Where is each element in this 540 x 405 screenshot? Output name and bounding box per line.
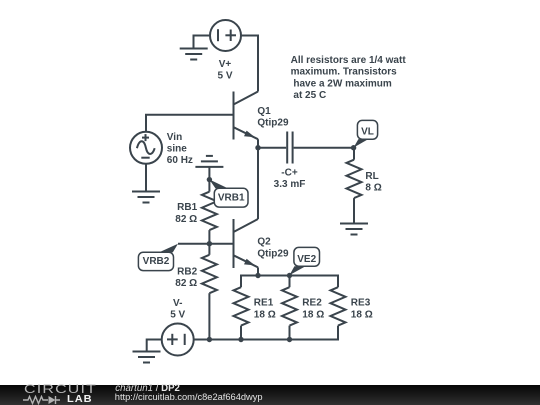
svg-text:RL: RL [365,171,378,182]
svg-text:RB2: RB2 [177,266,197,277]
svg-text:RE1: RE1 [254,298,274,309]
svg-text:18 Ω: 18 Ω [351,309,373,320]
svg-text:60 Hz: 60 Hz [167,155,193,166]
svg-text:Qtip29: Qtip29 [257,118,289,129]
svg-text:Q2: Q2 [257,237,271,248]
svg-text:3.3 mF: 3.3 mF [274,179,306,190]
svg-text:18 Ω: 18 Ω [254,309,276,320]
svg-text:sine: sine [167,144,187,155]
svg-text:5 V: 5 V [170,310,185,321]
svg-text:VRB2: VRB2 [143,256,170,267]
svg-text:8 Ω: 8 Ω [365,183,381,194]
svg-text:Qtip29: Qtip29 [257,248,289,259]
svg-text:RE3: RE3 [351,298,371,309]
svg-text:5 V: 5 V [217,71,232,82]
svg-text:-C+: -C+ [281,167,298,178]
svg-text:Vin: Vin [167,132,182,143]
svg-text:RB1: RB1 [177,202,197,213]
svg-text:VE2: VE2 [297,254,316,265]
svg-text:RE2: RE2 [302,298,322,309]
svg-text:82 Ω: 82 Ω [175,214,197,225]
svg-text:18 Ω: 18 Ω [302,309,324,320]
svg-text:Q1: Q1 [257,106,271,117]
svg-text:have a 2W maximum: have a 2W maximum [293,78,391,89]
svg-text:All resistors are 1/4 watt: All resistors are 1/4 watt [291,55,407,66]
svg-text:VL: VL [361,126,374,137]
svg-text:V+: V+ [219,59,232,70]
svg-text:V-: V- [173,298,182,309]
svg-text:82 Ω: 82 Ω [175,278,197,289]
svg-text:VRB1: VRB1 [218,193,245,204]
svg-text:maximum. Transistors: maximum. Transistors [291,67,398,78]
svg-text:at 25 C: at 25 C [293,90,326,101]
